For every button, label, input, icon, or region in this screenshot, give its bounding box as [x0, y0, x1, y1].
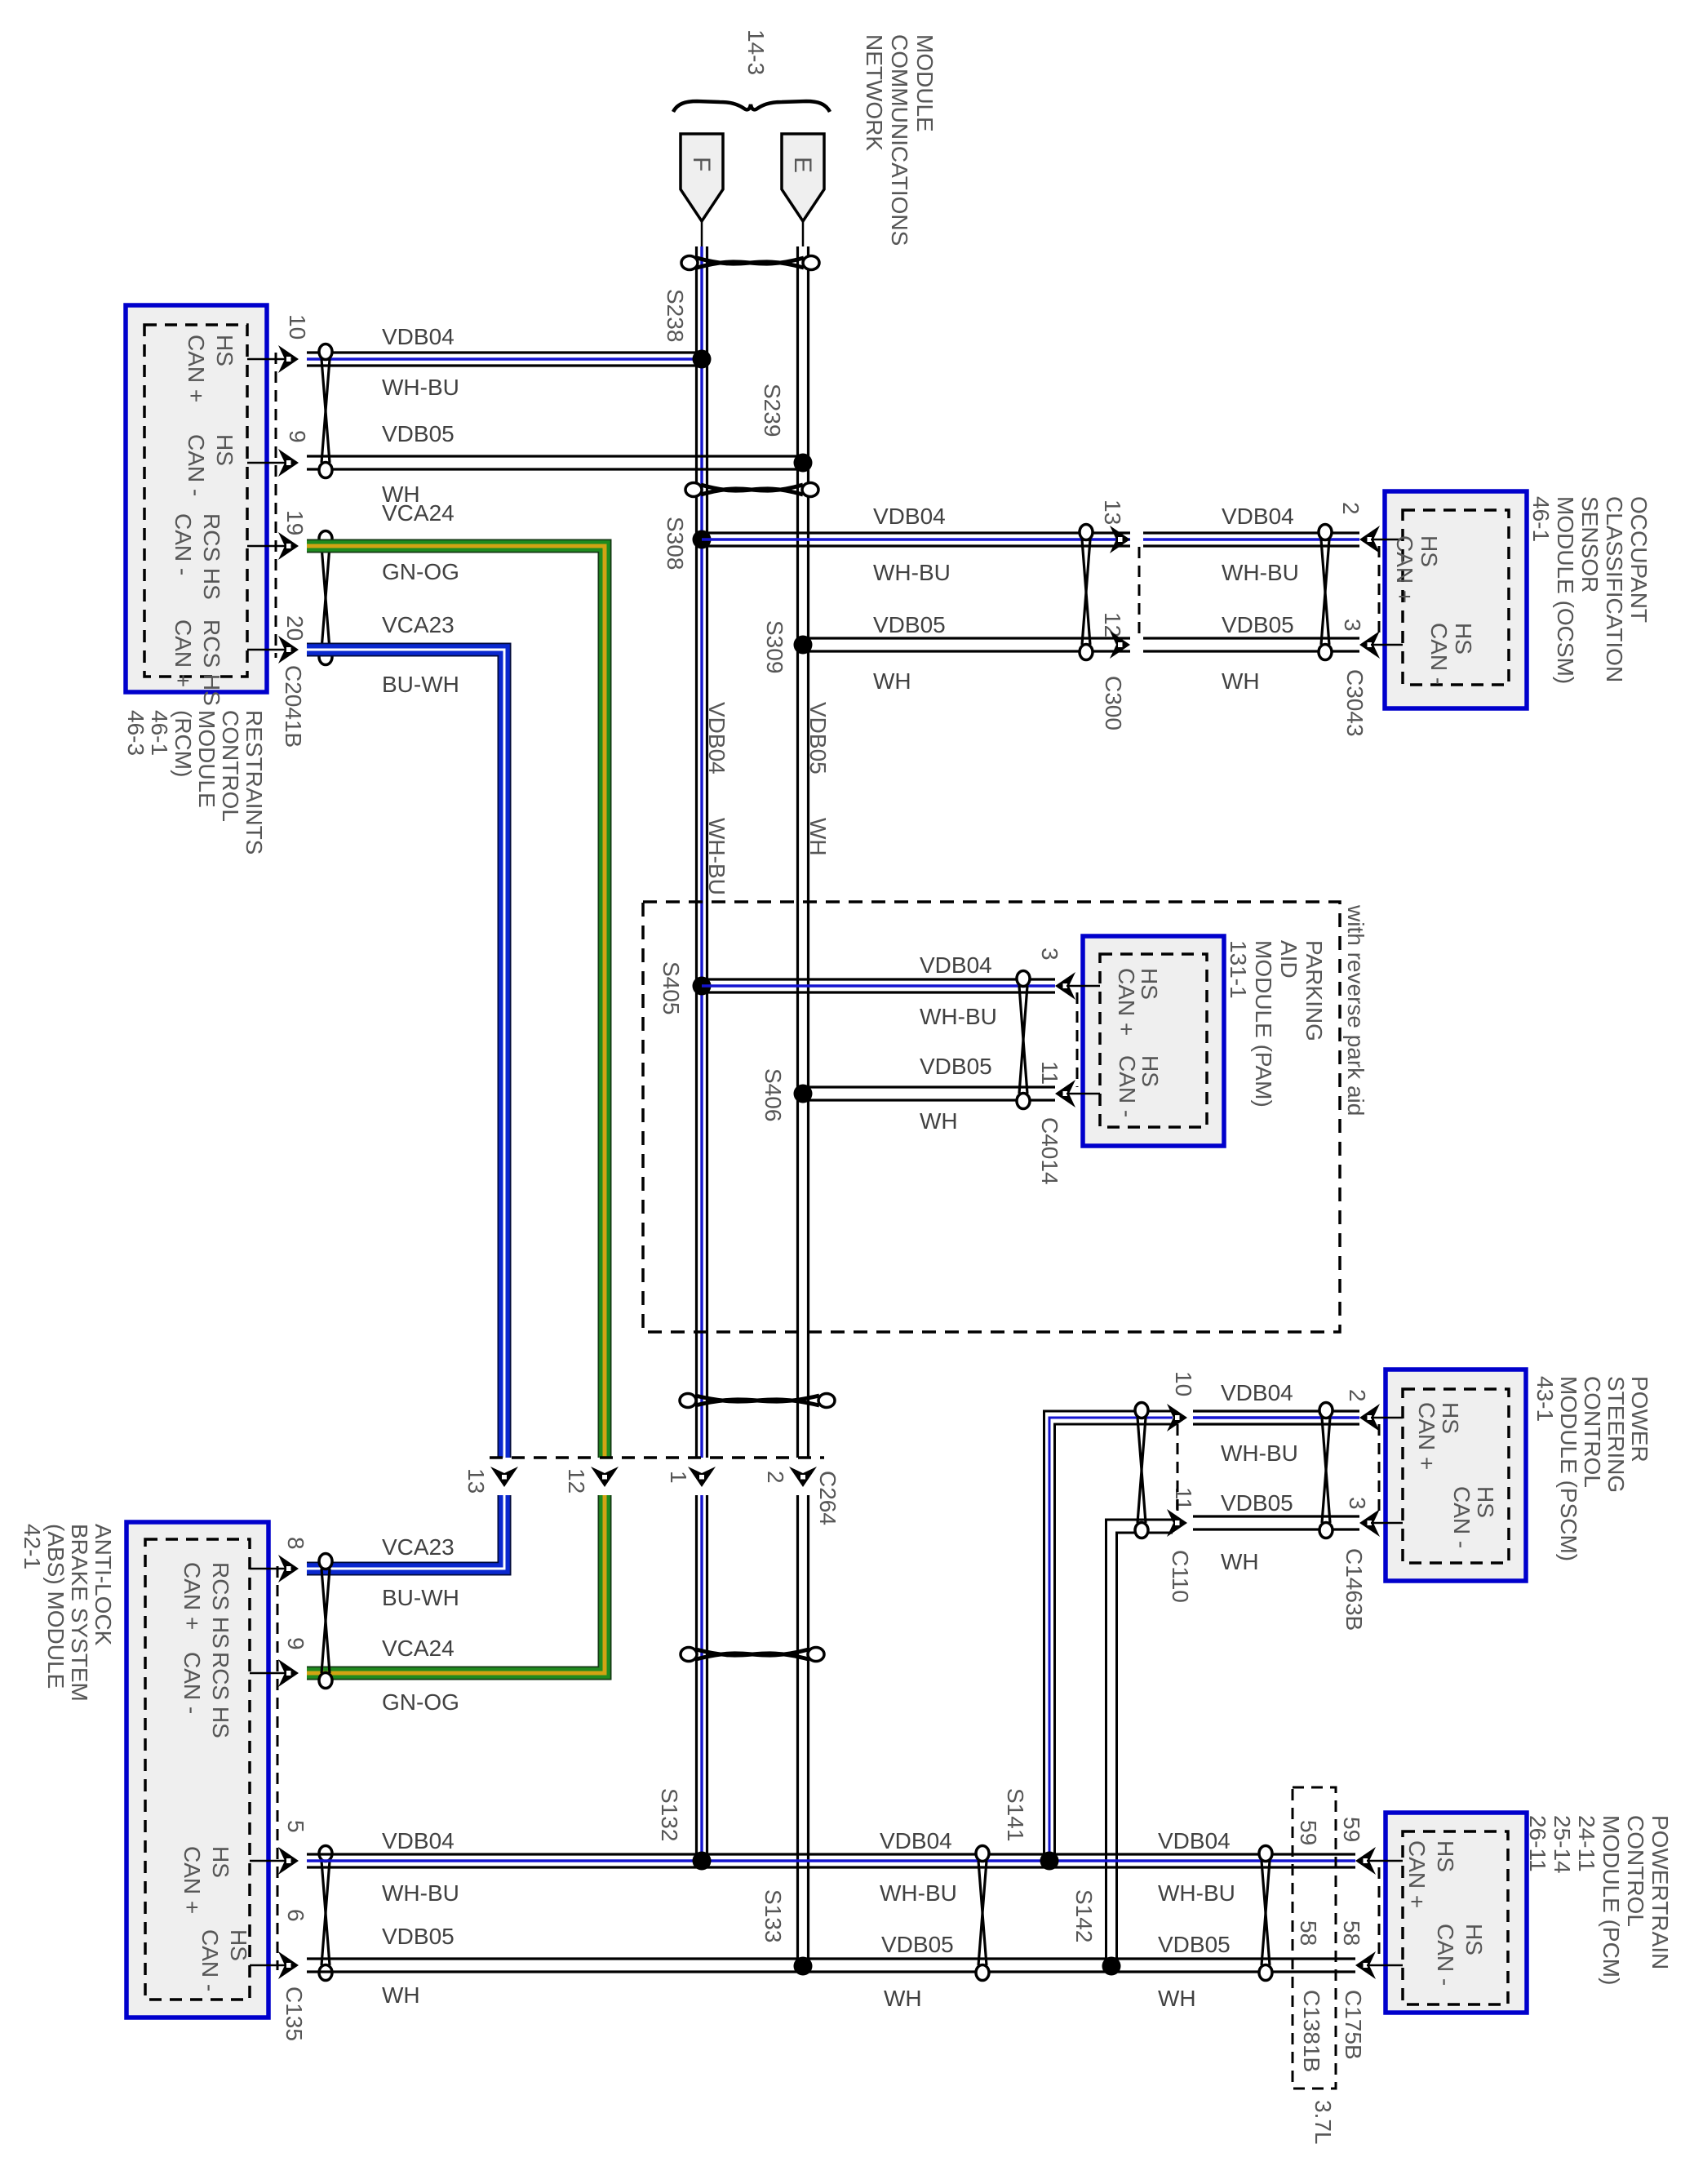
svg-text:8: 8 — [283, 1537, 308, 1550]
wire label VDB04 RCM — [382, 324, 455, 349]
connector C264 pin 2 — [763, 1467, 817, 1487]
wire label WH-BU ABS — [382, 1880, 459, 1906]
svg-text:CAN +: CAN + — [180, 1846, 205, 1914]
svg-text:10: 10 — [1171, 1371, 1196, 1396]
svg-text:VDB05: VDB05 — [873, 612, 946, 637]
wire label VDB05 on bus E — [805, 702, 831, 775]
svg-text:HS: HS — [212, 335, 237, 366]
svg-text:S141: S141 — [1003, 1788, 1028, 1841]
svg-text:59: 59 — [1339, 1817, 1364, 1842]
svg-text:3: 3 — [1340, 619, 1365, 632]
wire label BU-WH RCM — [382, 672, 459, 697]
wire label WH-BU RCM — [382, 375, 459, 400]
wire label VCA24 RCM — [382, 500, 455, 526]
connector label C300 — [1101, 676, 1126, 730]
wire bus E (VDB05 WH) lower segment — [798, 1495, 809, 1966]
svg-text:14-3: 14-3 — [743, 29, 769, 75]
svg-text:S133: S133 — [761, 1889, 786, 1942]
svg-text:CAN -: CAN - — [1433, 1924, 1458, 1986]
svg-text:VDB04: VDB04 — [382, 324, 455, 349]
wire label VDB05 PCM — [1158, 1932, 1231, 1957]
connector PAM dashed line — [1076, 992, 1079, 1087]
twisted pair symbol RCM pins 10-9 — [319, 344, 332, 478]
module PCM name — [1525, 1815, 1673, 1985]
wire label WH OCSM right — [1222, 668, 1260, 694]
svg-text:VDB04: VDB04 — [1158, 1828, 1231, 1853]
svg-text:13: 13 — [463, 1468, 489, 1494]
svg-text:HS: HS — [212, 434, 237, 466]
pin 2 PSCM — [1345, 1389, 1463, 1470]
connector PSCM dashed line — [1378, 1424, 1381, 1516]
pin 3 OCSM — [1340, 619, 1476, 685]
wire label VDB05 OCSM right — [1222, 612, 1294, 637]
module OCSM box — [1385, 491, 1527, 708]
svg-text:RCS HS: RCS HS — [199, 619, 224, 706]
svg-text:HS: HS — [1137, 968, 1162, 1000]
splice S406 — [761, 1068, 813, 1121]
wire VDB05 WH ABS pin6 to PCM — [307, 1959, 1355, 1972]
net label MODULE COMMUNICATIONS NETWORK — [862, 34, 938, 246]
svg-text:S309: S309 — [762, 620, 787, 673]
wire label WH ABS — [382, 1982, 420, 2008]
svg-text:C3043: C3043 — [1342, 669, 1368, 737]
svg-text:HS: HS — [208, 1846, 233, 1878]
svg-text:11: 11 — [1037, 1061, 1062, 1085]
twisted pair symbol OCSM right — [1319, 525, 1332, 660]
svg-text:CAN -: CAN - — [1115, 1055, 1140, 1117]
svg-text:C1463B: C1463B — [1341, 1548, 1367, 1631]
svg-text:VDB05: VDB05 — [920, 1054, 992, 1079]
wire bus F lead — [701, 221, 703, 246]
svg-text:C110: C110 — [1168, 1550, 1193, 1603]
twisted pair symbol bus top — [681, 256, 819, 270]
svg-text:RCS HS: RCS HS — [208, 1652, 233, 1738]
pin 11 PAM — [1037, 1055, 1163, 1117]
svg-text:HS: HS — [1451, 623, 1476, 655]
twisted pair symbol bus lower — [680, 1394, 835, 1408]
connector label C110 — [1168, 1550, 1193, 1603]
wire bus E (VDB05 WH) upper segment — [798, 246, 809, 1458]
svg-text:RCS HS: RCS HS — [199, 513, 224, 600]
pin 6 ABS — [197, 1909, 308, 1991]
svg-text:VDB05: VDB05 — [1221, 1490, 1293, 1516]
svg-text:CAN -: CAN - — [184, 434, 209, 496]
pin 58 PCM — [1355, 1924, 1487, 1986]
pin 59 C1381B — [1296, 1820, 1321, 1845]
splice S133 — [761, 1889, 813, 1976]
wire VDB04 WH-BU PSCM riser and elbow — [1044, 1411, 1173, 1861]
svg-text:CAN -: CAN - — [1449, 1486, 1474, 1548]
svg-text:WH: WH — [1222, 668, 1260, 694]
wire label WH OCSM left — [873, 668, 911, 694]
svg-text:VDB04: VDB04 — [1222, 504, 1294, 529]
svg-text:C2041B: C2041B — [281, 665, 306, 748]
svg-text:WH: WH — [873, 668, 911, 694]
svg-text:C300: C300 — [1101, 676, 1126, 730]
connector label C4014 — [1037, 1117, 1062, 1185]
connector label C135 — [282, 1986, 307, 2041]
splice S142 — [1071, 1889, 1121, 1976]
module PCM box — [1386, 1813, 1527, 2013]
svg-text:GN-OG: GN-OG — [382, 559, 459, 584]
connector label C2041B — [281, 665, 306, 748]
svg-text:WH-BU: WH-BU — [704, 818, 729, 895]
svg-text:6: 6 — [283, 1909, 308, 1922]
svg-text:VDB05: VDB05 — [1222, 612, 1294, 637]
svg-text:58: 58 — [1339, 1920, 1364, 1946]
svg-text:VDB05: VDB05 — [382, 1924, 455, 1949]
svg-text:3: 3 — [1345, 1497, 1370, 1510]
wire VDB05 WH PSCM riser and elbow — [1106, 1520, 1173, 1966]
svg-text:WH-BU: WH-BU — [1221, 1440, 1298, 1466]
pin 8 ABS — [180, 1537, 308, 1649]
connector label C3043 — [1342, 669, 1368, 737]
svg-text:12: 12 — [564, 1468, 589, 1494]
wire label VCA23 RCM — [382, 612, 455, 637]
svg-text:CAN +: CAN + — [184, 335, 209, 402]
svg-text:WH-BU: WH-BU — [382, 1880, 459, 1906]
svg-text:VDB04: VDB04 — [704, 702, 729, 775]
connector OCSM dashed line — [1378, 546, 1381, 638]
svg-text:RCS HS: RCS HS — [208, 1562, 233, 1649]
svg-text:2: 2 — [1338, 502, 1364, 515]
connector label C1463B — [1341, 1548, 1367, 1631]
twisted pair symbol mid bottom — [976, 1846, 989, 1981]
svg-text:C264: C264 — [815, 1471, 840, 1525]
module ABS name — [20, 1524, 116, 1702]
wire VDB04 WH-BU C300 to OCSM — [1143, 533, 1359, 546]
connector C110 dashed line — [1177, 1424, 1179, 1516]
twisted pair symbol OCSM left — [1080, 525, 1093, 660]
svg-text:HS: HS — [1438, 1402, 1463, 1434]
wire VDB04 WH-BU S405 to PAM — [702, 979, 1055, 992]
svg-text:WH: WH — [884, 1986, 922, 2011]
svg-text:VDB04: VDB04 — [382, 1828, 455, 1853]
pin 10 RCM — [184, 314, 310, 402]
connector C300 dashed line — [1138, 547, 1141, 638]
connector C264 pin 12 — [564, 1467, 619, 1494]
pin 3 PSCM — [1345, 1486, 1498, 1548]
wire label WH PCM — [1158, 1986, 1196, 2011]
pin 5 ABS — [180, 1820, 308, 1914]
connector dashed line C2041B — [275, 353, 277, 658]
svg-text:9: 9 — [283, 1637, 308, 1650]
svg-text:VDB04: VDB04 — [1221, 1380, 1293, 1405]
svg-text:S132: S132 — [657, 1788, 682, 1841]
wire label VDB04 OCSM left — [873, 504, 946, 529]
pin 3 PAM — [1037, 948, 1162, 1036]
svg-text:VDB04: VDB04 — [920, 952, 992, 978]
svg-text:S406: S406 — [761, 1068, 786, 1121]
pin 2 OCSM — [1338, 502, 1442, 603]
module ABS box — [126, 1522, 268, 2018]
wire VDB05 WH RCM pin9 to S239 — [307, 456, 803, 469]
svg-text:13: 13 — [1100, 499, 1125, 525]
svg-text:C175B: C175B — [1341, 1990, 1366, 2060]
pin 20 RCM — [171, 615, 308, 706]
wire label VDB04 OCSM right — [1222, 504, 1294, 529]
wire label VDB05 PSCM — [1221, 1490, 1293, 1516]
twisted pair symbol PSCM right — [1319, 1403, 1333, 1538]
module PSCM name — [1532, 1376, 1652, 1561]
wire VDB05 WH S309 to C300 — [803, 638, 1130, 651]
wire label VDB04 on bus F — [704, 702, 729, 775]
svg-text:S239: S239 — [760, 384, 785, 437]
svg-text:2: 2 — [763, 1471, 788, 1484]
connector PCM dashed line — [1378, 1867, 1381, 1959]
svg-text:HS: HS — [226, 1929, 251, 1961]
splice S239 — [760, 384, 813, 473]
pin 19 RCM — [171, 510, 308, 600]
connector C300 pin 12 — [1100, 612, 1130, 659]
bracket over connectors F and E — [673, 101, 830, 112]
splice S405 — [659, 961, 712, 1014]
engine label 3.7L — [1310, 2100, 1336, 2145]
connector label C1381B — [1299, 1990, 1324, 2072]
svg-text:CAN +: CAN + — [1414, 1402, 1439, 1470]
wire label VDB05 ABS — [382, 1924, 455, 1949]
svg-text:CAN +: CAN + — [1404, 1840, 1430, 1908]
svg-text:S308: S308 — [663, 517, 688, 570]
connector C1381B dashed box — [1293, 1787, 1336, 2089]
wire label VDB05 OCSM left — [873, 612, 946, 637]
twisted pair symbol PCM — [1259, 1846, 1272, 1981]
svg-text:3: 3 — [1037, 948, 1062, 961]
off-page connector flag F — [681, 134, 723, 221]
svg-text:9: 9 — [285, 430, 310, 443]
svg-text:HS: HS — [1417, 535, 1442, 567]
svg-text:CAN -: CAN - — [171, 513, 196, 575]
svg-text:CAN -: CAN - — [180, 1652, 205, 1714]
svg-text:CAN -: CAN - — [197, 1929, 223, 1991]
svg-text:10: 10 — [285, 314, 310, 340]
svg-text:3.7L: 3.7L — [1310, 2100, 1336, 2145]
wire VDB05 WH S406 to PAM — [803, 1087, 1055, 1100]
svg-text:CAN +: CAN + — [171, 619, 196, 687]
svg-text:VDB05: VDB05 — [881, 1932, 954, 1957]
wire bus F (VDB04 WH-BU) lower segment — [697, 1495, 707, 1861]
wire label WH-BU mid — [880, 1880, 957, 1906]
twisted pair symbol bus upper — [685, 483, 818, 497]
option label with reverse park aid — [1343, 904, 1368, 1116]
svg-text:VDB04: VDB04 — [873, 504, 946, 529]
svg-text:CAN +: CAN + — [1114, 968, 1139, 1036]
option box with reverse park aid — [643, 902, 1340, 1332]
wire label VCA24 ABS — [382, 1636, 455, 1661]
svg-text:19: 19 — [282, 510, 308, 535]
splice S309 — [762, 620, 813, 673]
wire label GN-OG RCM — [382, 559, 459, 584]
connector dashed line C135 — [277, 1566, 279, 1970]
wire VCA23 BU-WH path — [307, 650, 504, 1569]
wire VDB05 WH C110 to PSCM — [1193, 1516, 1359, 1529]
module PAM name — [1226, 940, 1327, 1108]
svg-text:HS: HS — [1461, 1924, 1487, 1955]
svg-text:S238: S238 — [663, 289, 688, 342]
splice S238 — [663, 289, 712, 369]
connector C264 pin 1 — [666, 1467, 716, 1487]
wire label WH-BU PAM — [920, 1004, 997, 1029]
connector C110 pin 10 — [1167, 1371, 1196, 1432]
pin 9 ABS — [180, 1637, 308, 1738]
svg-text:CAN +: CAN + — [180, 1562, 205, 1630]
wire label VDB04 PCM — [1158, 1828, 1231, 1853]
wire label WH-BU OCSM left — [873, 560, 951, 585]
wire label VDB04 ABS — [382, 1828, 455, 1853]
svg-text:VCA23: VCA23 — [382, 612, 455, 637]
svg-text:VDB05: VDB05 — [805, 702, 831, 775]
connector label C264 — [815, 1471, 840, 1525]
twisted pair symbol ABS pins 8-9 — [319, 1554, 332, 1689]
wire bus E lead — [802, 221, 805, 246]
wire VDB04 WH-BU ABS pin5 to PCM — [307, 1854, 1355, 1867]
pin 59 PCM — [1355, 1840, 1458, 1908]
svg-text:WH: WH — [920, 1108, 958, 1134]
wire VDB04 WH-BU RCM pin10 to S238 — [307, 353, 702, 366]
svg-text:WH: WH — [1158, 1986, 1196, 2011]
svg-text:VCA24: VCA24 — [382, 1636, 455, 1661]
svg-text:E: E — [789, 157, 816, 173]
connector C264 dashed line — [490, 1456, 824, 1459]
svg-text:WH-BU: WH-BU — [382, 375, 459, 400]
wire label WH PAM — [920, 1108, 958, 1134]
svg-text:C1381B: C1381B — [1299, 1990, 1324, 2072]
svg-text:C135: C135 — [282, 1986, 307, 2041]
connector label C175B — [1341, 1990, 1366, 2060]
module OCSM name — [1528, 496, 1652, 684]
svg-text:WH-BU: WH-BU — [873, 560, 951, 585]
wire label WH PSCM — [1221, 1549, 1259, 1574]
svg-text:WH-BU: WH-BU — [1222, 560, 1299, 585]
svg-text:VDB05: VDB05 — [382, 421, 455, 446]
svg-text:C4014: C4014 — [1037, 1117, 1062, 1185]
wire label VDB05 RCM — [382, 421, 455, 446]
wire VDB05 WH C300 to OCSM — [1143, 638, 1359, 651]
svg-text:VCA24: VCA24 — [382, 500, 455, 526]
module RCM name — [123, 710, 267, 855]
wire label VDB04 PAM — [920, 952, 992, 978]
svg-text:WH: WH — [382, 1982, 420, 2008]
svg-text:BU-WH: BU-WH — [382, 672, 459, 697]
svg-text:5: 5 — [283, 1820, 308, 1833]
svg-text:59: 59 — [1296, 1820, 1321, 1845]
wire label BU-WH ABS — [382, 1585, 459, 1610]
module PSCM box — [1386, 1369, 1526, 1581]
twisted pair symbol bus bottom — [681, 1648, 824, 1662]
wire label WH-BU OCSM right — [1222, 560, 1299, 585]
wire VCA24 GN-OG path — [307, 546, 605, 1673]
svg-text:WH: WH — [805, 818, 831, 856]
wire label GN-OG ABS — [382, 1689, 459, 1715]
pin 59 C175B — [1339, 1817, 1364, 1842]
wire VDB04 WH-BU C110 to PSCM — [1193, 1411, 1359, 1424]
connector C110 pin 11 — [1167, 1487, 1196, 1537]
svg-text:2: 2 — [1345, 1389, 1370, 1402]
connector C300 pin 13 — [1100, 499, 1130, 553]
off-page connector flag E — [782, 134, 824, 221]
svg-text:CAN -: CAN - — [1426, 623, 1452, 685]
svg-text:VDB04: VDB04 — [880, 1828, 952, 1853]
svg-text:58: 58 — [1296, 1920, 1321, 1946]
wire label VDB05 mid — [881, 1932, 954, 1957]
pin 58 C175B — [1339, 1920, 1364, 1946]
svg-text:HS: HS — [1137, 1055, 1163, 1087]
svg-text:VCA23: VCA23 — [382, 1534, 455, 1560]
wire label WH-BU on bus F — [704, 818, 729, 895]
svg-text:HS: HS — [1473, 1486, 1498, 1518]
wire label WH RCM — [382, 482, 420, 507]
svg-text:WH-BU: WH-BU — [1158, 1880, 1235, 1906]
svg-text:BU-WH: BU-WH — [382, 1585, 459, 1610]
wire label WH mid — [884, 1986, 922, 2011]
wire label VDB05 PAM — [920, 1054, 992, 1079]
svg-text:VDB05: VDB05 — [1158, 1932, 1231, 1957]
twisted pair symbol PSCM left — [1135, 1403, 1148, 1538]
module PAM box — [1083, 936, 1224, 1146]
wire label WH on bus E — [805, 818, 831, 856]
wire label VDB04 PSCM — [1221, 1380, 1293, 1405]
wire label WH-BU PCM — [1158, 1880, 1235, 1906]
twisted pair symbol PAM — [1017, 971, 1030, 1109]
pin 58 C1381B — [1296, 1920, 1321, 1946]
wire VDB04 WH-BU S308 to C300 — [702, 533, 1130, 546]
svg-text:20: 20 — [282, 615, 308, 641]
svg-text:WH: WH — [1221, 1549, 1259, 1574]
svg-text:WH-BU: WH-BU — [880, 1880, 957, 1906]
svg-text:F: F — [688, 157, 715, 171]
svg-text:S142: S142 — [1071, 1889, 1097, 1942]
svg-text:CAN +: CAN + — [1392, 535, 1417, 603]
svg-text:1: 1 — [666, 1471, 691, 1484]
module RCM box — [126, 305, 267, 692]
pin 9 RCM — [184, 430, 310, 496]
wire label VCA23 ABS — [382, 1534, 455, 1560]
svg-text:GN-OG: GN-OG — [382, 1689, 459, 1715]
connector C264 pin 13 — [463, 1467, 518, 1494]
twisted pair symbol RCM pins 19-20 — [319, 531, 332, 665]
wire label VDB04 mid — [880, 1828, 952, 1853]
splice S141 — [1003, 1788, 1059, 1871]
twisted pair symbol ABS pins 5-6 — [319, 1846, 332, 1981]
splice S308 — [663, 517, 712, 570]
sheet reference 14-3 — [743, 29, 769, 75]
svg-text:HS: HS — [1433, 1840, 1458, 1872]
svg-text:11: 11 — [1171, 1487, 1196, 1511]
splice S132 — [657, 1788, 712, 1871]
wire bus F (VDB04 WH-BU) upper segment — [697, 246, 707, 1458]
svg-text:WH-BU: WH-BU — [920, 1004, 997, 1029]
svg-text:with reverse park aid: with reverse park aid — [1343, 904, 1368, 1116]
wire label WH-BU PSCM — [1221, 1440, 1298, 1466]
svg-text:S405: S405 — [659, 961, 684, 1014]
